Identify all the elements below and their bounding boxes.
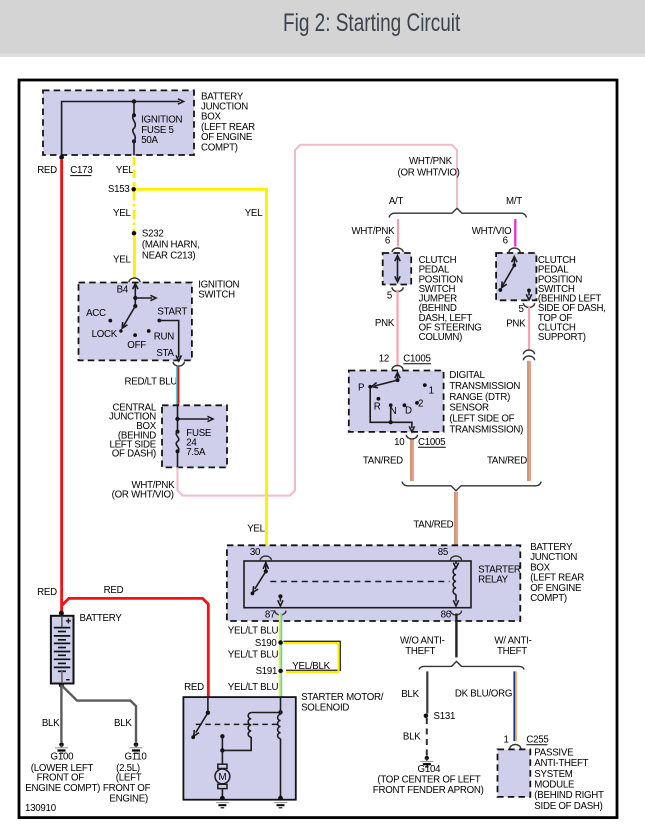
svg-text:YEL/LT BLU: YEL/LT BLU bbox=[228, 649, 279, 660]
wire WHT/VIO (M/T branch) bbox=[514, 219, 516, 247]
svg-text:(MAIN HARN,: (MAIN HARN, bbox=[142, 240, 200, 251]
svg-text:ENGINE): ENGINE) bbox=[109, 793, 148, 804]
wire BLK (S131 to G104, dashed) bbox=[426, 718, 428, 756]
wire YEL (S153 branch to relay pin 30) bbox=[136, 189, 267, 555]
pin 12 connector arc bbox=[392, 366, 403, 370]
svg-text:85: 85 bbox=[438, 547, 448, 558]
svg-text:MODULE: MODULE bbox=[534, 779, 575, 790]
contact START bbox=[157, 319, 161, 323]
node: fuse 24 tap bbox=[175, 417, 179, 421]
svg-text:M/T: M/T bbox=[506, 196, 522, 207]
svg-text:SYSTEM: SYSTEM bbox=[534, 769, 573, 780]
wire: hold-in winding to ground bbox=[280, 739, 282, 798]
svg-text:OF DASH): OF DASH) bbox=[112, 449, 156, 460]
svg-text:PNK: PNK bbox=[375, 318, 395, 329]
svg-text:M: M bbox=[218, 772, 226, 783]
wire: CJB feed bbox=[177, 405, 179, 419]
splice S131 bbox=[424, 714, 429, 719]
contact P bbox=[368, 385, 372, 389]
svg-text:G104: G104 bbox=[418, 764, 442, 775]
contact N bbox=[389, 403, 393, 407]
svg-text:BLK: BLK bbox=[403, 732, 421, 743]
svg-text:IGNITION: IGNITION bbox=[141, 114, 182, 125]
svg-text:YEL: YEL bbox=[247, 524, 265, 535]
svg-text:A/T: A/T bbox=[389, 196, 404, 207]
contact 1 bbox=[423, 383, 427, 387]
brace anti-theft split bbox=[419, 661, 524, 669]
wire: solenoid input feed bbox=[280, 697, 282, 714]
wire YEL (fuse 5 to S153) bbox=[133, 157, 136, 188]
svg-text:50A: 50A bbox=[141, 135, 158, 146]
svg-text:S232: S232 bbox=[142, 228, 164, 239]
wire: P to pin 10 bbox=[370, 387, 412, 428]
svg-text:COLUMN): COLUMN) bbox=[419, 332, 462, 343]
wire YEL/LT BLU (S190 to S191) bbox=[279, 645, 281, 669]
svg-text:YEL: YEL bbox=[113, 208, 131, 219]
svg-text:YEL: YEL bbox=[113, 255, 131, 266]
svg-text:COMPT): COMPT) bbox=[201, 142, 238, 153]
svg-text:SENSOR: SENSOR bbox=[449, 403, 489, 414]
svg-text:(BEHIND RIGHT: (BEHIND RIGHT bbox=[534, 790, 604, 801]
battery negative mark bbox=[66, 679, 70, 681]
splice S190 bbox=[278, 640, 283, 645]
contact R bbox=[377, 397, 381, 401]
node: rotor pivot bbox=[133, 304, 137, 308]
switch rotor (pointing at LOCK) bbox=[123, 306, 136, 327]
brace TAN/RED merge bbox=[402, 482, 541, 491]
svg-text:RED: RED bbox=[184, 682, 204, 693]
svg-text:C1005: C1005 bbox=[403, 353, 430, 364]
pin 6 connector arc (clutch switch) bbox=[509, 248, 520, 252]
wire PNK (clutch switch down) bbox=[528, 306, 530, 350]
wire YEL/BLK (S190 to S191 loop) bbox=[284, 641, 341, 670]
contact ACC bbox=[108, 319, 112, 323]
central junction box bbox=[162, 405, 227, 467]
svg-text:SOLENOID: SOLENOID bbox=[301, 703, 349, 714]
header bar bbox=[0, 0, 645, 54]
svg-text:ENGINE COMPT): ENGINE COMPT) bbox=[25, 783, 100, 794]
svg-text:(OR WHT/VIO): (OR WHT/VIO) bbox=[398, 168, 460, 179]
svg-text:RED: RED bbox=[37, 587, 57, 598]
wire: BJB internal feed bus bbox=[62, 102, 180, 157]
wire: START contact to STA pin bbox=[159, 321, 178, 358]
node: C173 red exit bbox=[59, 155, 64, 160]
relay switch blade bbox=[255, 571, 266, 589]
battery positive mark bbox=[66, 618, 71, 623]
pin STA connector arc bbox=[173, 362, 184, 366]
svg-text:86: 86 bbox=[441, 609, 451, 620]
svg-text:NEAR C213): NEAR C213) bbox=[142, 250, 196, 261]
svg-text:COMPT): COMPT) bbox=[530, 593, 567, 604]
relay mechanical link bbox=[270, 581, 449, 583]
battery bbox=[51, 616, 74, 684]
svg-text:ANTI-THEFT: ANTI-THEFT bbox=[534, 758, 588, 769]
ground (solenoid) bbox=[274, 802, 287, 804]
svg-text:OFF: OFF bbox=[127, 340, 146, 351]
svg-text:10: 10 bbox=[394, 437, 405, 448]
svg-text:YEL/BLK: YEL/BLK bbox=[292, 661, 330, 672]
wire RED (battery tap to solenoid) bbox=[62, 598, 208, 696]
svg-text:BLK: BLK bbox=[401, 689, 419, 700]
svg-text:1: 1 bbox=[503, 734, 508, 745]
svg-text:RED: RED bbox=[37, 165, 57, 176]
clutch switch output contact bbox=[527, 289, 531, 293]
svg-text:STA: STA bbox=[156, 348, 174, 359]
solenoid switch feed bbox=[207, 697, 209, 713]
svg-text:C255: C255 bbox=[526, 734, 548, 745]
arrow: bus feed right bbox=[178, 99, 184, 104]
svg-text:S191: S191 bbox=[256, 666, 278, 677]
hold-in winding bbox=[278, 715, 281, 739]
svg-text:SIDE OF DASH): SIDE OF DASH) bbox=[534, 801, 602, 812]
wire BLK (relay 86 to anti-theft brace) bbox=[455, 614, 457, 658]
inline connector break bbox=[523, 350, 534, 354]
solenoid switch contact bbox=[220, 734, 224, 738]
node: fuse 5 tap bbox=[132, 99, 136, 103]
pin 10 connector arc bbox=[406, 435, 417, 439]
wire YEL/LT BLU (87 to S190) bbox=[279, 614, 281, 641]
node: battery positive bbox=[59, 611, 64, 616]
brace A/T M/T split bbox=[389, 208, 527, 217]
wire TAN/RED (DTR to merge brace) bbox=[410, 440, 412, 482]
svg-text:START: START bbox=[157, 306, 187, 317]
svg-text:SWITCH: SWITCH bbox=[198, 290, 235, 301]
splice S232 bbox=[132, 231, 137, 236]
svg-text:G100: G100 bbox=[51, 751, 75, 762]
relay switch feed bbox=[265, 561, 267, 571]
svg-text:TAN/RED: TAN/RED bbox=[363, 456, 403, 467]
node: solenoid input bbox=[278, 710, 282, 714]
svg-text:7.5A: 7.5A bbox=[186, 447, 206, 458]
svg-text:1: 1 bbox=[429, 386, 434, 397]
svg-text:(OR WHT/VIO): (OR WHT/VIO) bbox=[112, 489, 174, 500]
svg-text:12: 12 bbox=[379, 353, 389, 364]
pin B4 connector arc bbox=[129, 278, 140, 282]
svg-text:THEFT: THEFT bbox=[497, 646, 527, 657]
svg-text:5: 5 bbox=[387, 290, 392, 301]
contact OFF bbox=[133, 333, 137, 337]
starter motor M bbox=[221, 750, 223, 764]
battery junction box (top) bbox=[43, 90, 194, 155]
contact LOCK bbox=[119, 329, 122, 332]
svg-text:FRONT FENDER APRON): FRONT FENDER APRON) bbox=[373, 785, 484, 796]
ignition fuse 5 50A bbox=[133, 102, 135, 116]
svg-text:RUN: RUN bbox=[154, 332, 174, 343]
arrow: CJB bus bbox=[178, 418, 210, 420]
wire: N contact branch bbox=[390, 405, 392, 422]
wire YEL/LT BLU (S191 to solenoid) bbox=[279, 673, 281, 696]
svg-text:130910: 130910 bbox=[25, 803, 57, 814]
svg-text:C173: C173 bbox=[70, 165, 92, 176]
svg-text:Fig 2: Starting Circuit: Fig 2: Starting Circuit bbox=[283, 8, 461, 36]
splice S191 bbox=[278, 669, 283, 674]
node: motor ground bbox=[220, 796, 225, 801]
solenoid mechanical link bbox=[196, 723, 279, 725]
contact D bbox=[403, 403, 407, 407]
clutch switch blade bbox=[502, 265, 515, 287]
wire BLK (brace to S131) bbox=[426, 671, 428, 713]
svg-text:TRANSMISSION): TRANSMISSION) bbox=[449, 425, 523, 436]
svg-text:RED: RED bbox=[104, 585, 124, 596]
relay coil bbox=[455, 561, 457, 564]
wire: B4 feed into switch bbox=[134, 285, 136, 306]
svg-text:FUSE 5: FUSE 5 bbox=[141, 125, 173, 136]
svg-text:6: 6 bbox=[503, 236, 508, 247]
ground (motor) bbox=[216, 802, 229, 804]
pin 30 connector arc bbox=[260, 556, 271, 560]
clutch pedal position switch box bbox=[496, 253, 536, 300]
svg-text:PNK: PNK bbox=[506, 319, 526, 330]
battery junction box (relay) bbox=[227, 545, 520, 621]
svg-text:TAN/RED: TAN/RED bbox=[413, 520, 453, 531]
svg-text:PASSIVE: PASSIVE bbox=[534, 747, 574, 758]
DTR feed bbox=[397, 375, 399, 381]
svg-text:6: 6 bbox=[385, 236, 390, 247]
svg-text:DIGITAL: DIGITAL bbox=[449, 370, 485, 381]
svg-text:G110: G110 bbox=[125, 751, 148, 762]
node: switch feed bbox=[133, 296, 137, 300]
pin 1 connector arc bbox=[510, 745, 521, 749]
svg-text:ACC: ACC bbox=[86, 308, 106, 319]
digital transmission range sensor box bbox=[349, 371, 444, 432]
wire YEL (S232 to B4) bbox=[133, 235, 136, 277]
wire TAN/RED (right, to merge brace) bbox=[527, 361, 529, 481]
pin 86 connector arc bbox=[450, 611, 461, 615]
svg-text:THEFT: THEFT bbox=[405, 646, 435, 657]
wire BLK (battery to G100) bbox=[60, 685, 62, 742]
svg-text:STARTER MOTOR/: STARTER MOTOR/ bbox=[301, 692, 384, 703]
solenoid switch blade bbox=[196, 713, 208, 733]
wire YEL (crossing over WHT/PNK) bbox=[265, 489, 268, 502]
clutch switch feed bbox=[513, 259, 515, 266]
svg-text:S190: S190 bbox=[255, 638, 277, 649]
svg-text:2: 2 bbox=[418, 399, 423, 410]
svg-text:RELAY: RELAY bbox=[478, 574, 509, 585]
splice S153 bbox=[131, 187, 136, 192]
clutch pedal position switch jumper box bbox=[383, 253, 412, 285]
svg-text:S131: S131 bbox=[434, 711, 456, 722]
ground G104 bbox=[425, 756, 429, 760]
pull-in winding bbox=[248, 713, 251, 737]
svg-text:BLK: BLK bbox=[114, 718, 132, 729]
svg-text:DK BLU/ORG: DK BLU/ORG bbox=[455, 689, 512, 700]
svg-text:B4: B4 bbox=[117, 285, 129, 296]
svg-text:YEL/LT BLU: YEL/LT BLU bbox=[228, 625, 279, 636]
jumper wire (double arrow) bbox=[397, 258, 399, 280]
pin 5 connector arc (clutch switch) bbox=[523, 303, 534, 307]
svg-text:R: R bbox=[374, 401, 381, 412]
passive anti-theft system module box bbox=[498, 749, 531, 797]
wire PNK (jumper to C1005 pin 12) bbox=[396, 290, 398, 366]
svg-text:WHT/PNK: WHT/PNK bbox=[409, 156, 453, 167]
ignition switch box bbox=[79, 283, 192, 361]
svg-text:D: D bbox=[405, 405, 412, 416]
relay contact to pin 87 bbox=[278, 594, 282, 598]
wire: motor to ground bbox=[221, 789, 223, 798]
svg-text:87: 87 bbox=[265, 609, 275, 620]
wire BLK (battery to G110) bbox=[61, 685, 136, 742]
svg-text:SUPPORT): SUPPORT) bbox=[538, 332, 586, 343]
wire: winding tops link bbox=[251, 712, 280, 714]
svg-text:YEL: YEL bbox=[116, 165, 134, 176]
svg-text:RED/LT BLU: RED/LT BLU bbox=[125, 377, 178, 388]
svg-text:S153: S153 bbox=[108, 184, 130, 195]
pin 87 connector arc bbox=[275, 611, 286, 615]
svg-text:JUNCTION: JUNCTION bbox=[530, 552, 577, 563]
svg-text:(LEFT SIDE OF: (LEFT SIDE OF bbox=[449, 414, 514, 425]
pin 85 connector arc bbox=[450, 556, 461, 560]
node: solenoid ground bbox=[278, 796, 283, 801]
wire RED/LT BLU (STA to CJB) bbox=[176, 367, 178, 405]
DTR rotor (pointing at P) bbox=[375, 380, 398, 386]
ground G110 bbox=[134, 742, 139, 747]
svg-text:YEL/LT BLU: YEL/LT BLU bbox=[228, 682, 279, 693]
arrow: switch feed branch bbox=[135, 297, 152, 299]
wire WHT/PNK (CJB to A/T M/T brace) bbox=[178, 145, 458, 496]
fuse 24 (7.5A) bbox=[177, 419, 179, 432]
svg-text:P: P bbox=[358, 383, 364, 394]
svg-text:30: 30 bbox=[250, 547, 261, 558]
pin 6 connector arc (jumper) bbox=[392, 248, 403, 252]
wire DK BLU/ORG bbox=[513, 671, 515, 741]
wire RED (C173 to battery) bbox=[60, 159, 63, 612]
svg-text:LOCK: LOCK bbox=[92, 329, 118, 340]
wire WHT/PNK (A/T branch) bbox=[397, 219, 399, 247]
node: battery negative bbox=[59, 683, 64, 688]
wire: motor node to pull-in winding bbox=[222, 737, 251, 750]
svg-text:C1005: C1005 bbox=[418, 437, 445, 448]
svg-text:BLK: BLK bbox=[42, 718, 60, 729]
wire: contact to motor node bbox=[221, 736, 223, 750]
svg-text:YEL: YEL bbox=[245, 208, 263, 219]
ground G100 bbox=[59, 742, 64, 747]
svg-text:BATTERY: BATTERY bbox=[80, 613, 123, 624]
svg-text:5: 5 bbox=[519, 304, 524, 315]
starter motor/solenoid box bbox=[183, 697, 295, 800]
svg-text:RANGE (DTR): RANGE (DTR) bbox=[449, 392, 510, 403]
starter relay box bbox=[244, 561, 471, 608]
wire TAN/RED (to relay pin 85) bbox=[454, 492, 456, 556]
pin 5 connector arc (jumper) bbox=[392, 287, 403, 291]
contact RUN bbox=[147, 329, 151, 333]
svg-text:TRANSMISSION: TRANSMISSION bbox=[449, 381, 520, 392]
wire YEL (S153 to S232) bbox=[133, 192, 136, 232]
svg-text:TAN/RED: TAN/RED bbox=[487, 456, 527, 467]
contact 2 bbox=[415, 401, 419, 405]
